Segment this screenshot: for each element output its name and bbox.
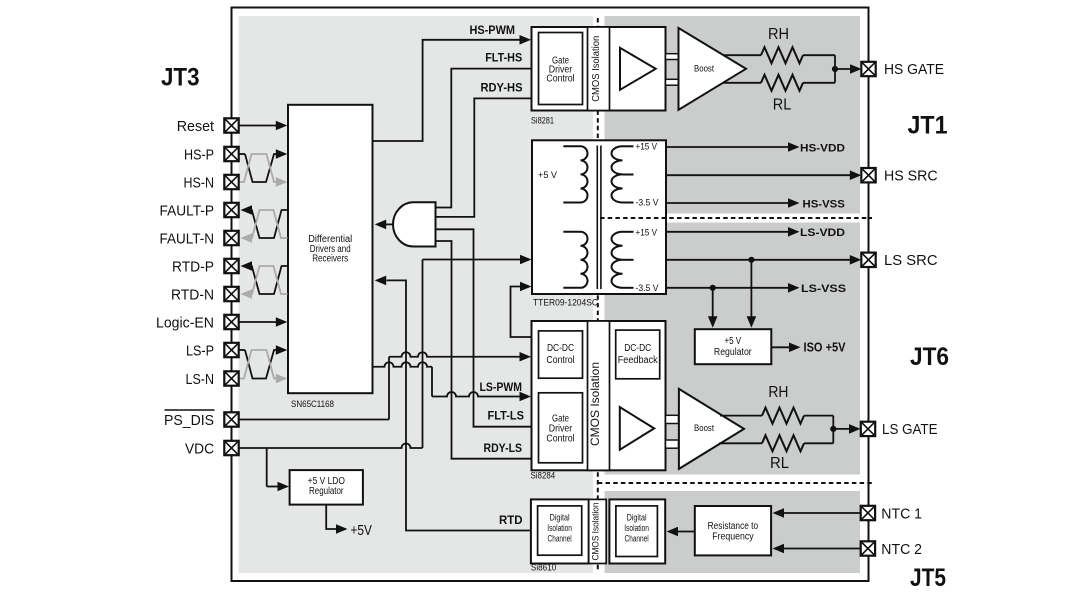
svg-text:DC-DC: DC-DC [547, 343, 574, 354]
wire LS-PWM [373, 362, 532, 401]
svg-text:Isolation: Isolation [624, 523, 649, 533]
svg-text:CMOS Isolation: CMOS Isolation [588, 362, 602, 446]
svg-text:JT6: JT6 [910, 343, 949, 371]
svg-text:CMOS Isolation: CMOS Isolation [590, 503, 600, 561]
transformer upper primary winding [563, 146, 587, 202]
svg-text:LS-N: LS-N [186, 371, 215, 388]
wire HS gate output junction [832, 55, 862, 83]
svg-text:LS-PWM: LS-PWM [480, 380, 523, 394]
svg-text:Regulator: Regulator [309, 486, 344, 497]
svg-text:TTER09-1204SC: TTER09-1204SC [533, 298, 598, 308]
terminal Logic-EN [156, 315, 239, 332]
terminal HS GATE [861, 62, 944, 78]
transformer TTER09-1204SC box [532, 140, 666, 294]
label -3.5 V upper secondary [636, 198, 659, 208]
svg-text:Control: Control [546, 355, 574, 366]
wire FLT-HS to AND gate [436, 51, 532, 208]
wire Logic-EN input [239, 317, 288, 327]
svg-text:SN65C1168: SN65C1168 [291, 399, 334, 409]
Si8610 CMOS isolation strip [589, 499, 607, 563]
wire ISO +5V output [771, 343, 800, 353]
digital isolator U4 Si8610 left box [531, 499, 589, 563]
wire RDY-HS to AND gate [436, 81, 532, 217]
resistor RH high-side [723, 26, 835, 63]
svg-text:Channel: Channel [548, 534, 572, 544]
svg-text:JT5: JT5 [910, 564, 946, 592]
wire NTC 2 input [773, 544, 862, 554]
svg-text:Channel: Channel [625, 534, 649, 544]
terminal LS GATE [861, 422, 938, 439]
wire HS-VSS rail [666, 198, 845, 210]
terminal FAULT-P [160, 203, 239, 220]
svg-text:FLT-LS: FLT-LS [488, 409, 525, 423]
wire RTD from isolator to transceiver [375, 276, 531, 531]
svg-text:RTD-N: RTD-N [171, 287, 214, 304]
svg-text:Boost: Boost [694, 64, 714, 74]
svg-text:+5V: +5V [351, 522, 372, 539]
svg-text:HS-PWM: HS-PWM [470, 23, 516, 37]
Si8284 output buffer triangle [620, 407, 654, 450]
logic-side light gray panel [239, 16, 594, 573]
Si8284 CMOS isolation strip [588, 321, 610, 470]
wire VDC to transformer [239, 255, 532, 448]
svg-text:VDC: VDC [185, 441, 214, 458]
terminal HS-P [184, 147, 239, 164]
svg-text:NTC 2: NTC 2 [881, 542, 922, 558]
svg-text:Frequency: Frequency [712, 532, 753, 543]
svg-text:Control: Control [546, 73, 574, 84]
AND gate fault combiner [393, 202, 436, 246]
svg-text:RDY-LS: RDY-LS [484, 441, 523, 455]
resistor RL low-side [719, 435, 833, 472]
wire RDY-LS to AND gate [436, 241, 532, 459]
transformer part label TTER09-1204SC [533, 298, 598, 308]
wire HS-VDD rail [666, 142, 845, 154]
svg-text:RTD-P: RTD-P [172, 259, 214, 276]
wire HS-PWM [373, 23, 532, 141]
terminal HS SRC [861, 168, 937, 185]
svg-text:HS-VSS: HS-VSS [803, 198, 846, 210]
twisted pair HS-P HS-N input [239, 149, 288, 187]
Si8281 output buffer triangle [620, 48, 656, 90]
terminal HS-N [184, 175, 239, 192]
svg-text:-3.5 V: -3.5 V [636, 283, 659, 293]
wire HS SRC rail [666, 170, 861, 180]
part label SN65C1168 [291, 399, 334, 409]
twisted pair FAULT-P FAULT-N output [241, 205, 288, 243]
svg-text:+15 V: +15 V [636, 227, 658, 237]
wire PS_DIS to DC-DC control [239, 352, 532, 420]
svg-text:ISO +5V: ISO +5V [804, 340, 846, 355]
twisted pair LS-P LS-N input [239, 345, 288, 383]
resistor RL high-side [723, 75, 836, 114]
terminal NTC 2 [861, 541, 922, 558]
svg-text:RH: RH [768, 384, 788, 401]
transformer core lines [597, 146, 601, 290]
+5 V LDO regulator box [290, 470, 363, 505]
outer frame [232, 8, 869, 582]
svg-text:LS-VSS: LS-VSS [801, 283, 847, 295]
differential drivers and receivers U1 SN65C1168 box [288, 105, 373, 393]
label -3.5 V lower secondary [636, 283, 659, 293]
svg-text:DC-DC: DC-DC [624, 343, 651, 354]
terminal NTC 1 [861, 506, 922, 523]
Si8281 CMOS isolation strip [588, 27, 610, 111]
svg-text:FAULT-N: FAULT-N [160, 231, 215, 248]
wire LS gate output junction [830, 416, 860, 444]
+5 V regulator box [695, 329, 772, 364]
Si8284 DC-DC feedback inner box [616, 330, 660, 379]
svg-text:CMOS Isolation: CMOS Isolation [590, 36, 602, 102]
svg-text:LS GATE: LS GATE [882, 422, 938, 438]
gate driver U2 Si8281 outer box [532, 27, 666, 111]
transformer lower secondary winding [612, 232, 634, 288]
wire LS-VDD rail [666, 227, 845, 239]
label ISO +5V [804, 340, 846, 355]
svg-text:NTC 1: NTC 1 [881, 506, 922, 522]
svg-text:FAULT-P: FAULT-P [160, 203, 215, 220]
svg-text:PS_DIS: PS_DIS [164, 412, 214, 429]
svg-text:JT1: JT1 [908, 112, 948, 140]
svg-text:Receivers: Receivers [312, 253, 348, 264]
isolated-side dark gray panel JT1 section [605, 16, 861, 214]
wire AND gate output to transceiver [375, 220, 394, 230]
connector stubs Si8281 to boost [666, 54, 679, 86]
svg-text:RL: RL [773, 97, 792, 114]
svg-text:+5 V: +5 V [538, 170, 557, 180]
wire NTC 1 input [773, 508, 862, 518]
terminal PS_DIS [164, 410, 239, 429]
wire R2F output to isolator [667, 527, 695, 537]
svg-text:Si8284: Si8284 [531, 471, 556, 481]
wire LDO +5V output [326, 505, 347, 534]
isolated-side dark gray panel JT6 section [605, 223, 861, 475]
Si8610 right digital isolation channel box [609, 499, 665, 563]
Si8610 left digital isolation channel inner box [538, 506, 582, 555]
wire VDC branch to LDO regulator [267, 448, 289, 491]
svg-text:Digital: Digital [627, 513, 647, 523]
label +15 V lower secondary [636, 227, 658, 237]
resistor RH low-side [720, 384, 833, 424]
terminal LS-N [186, 371, 239, 388]
part label Si8610 [531, 563, 556, 573]
wire FLT-LS to AND gate [436, 229, 532, 426]
transformer upper secondary winding [612, 146, 634, 202]
svg-text:+15 V: +15 V [636, 142, 658, 152]
resistance to frequency converter box [695, 506, 771, 555]
svg-text:LS-VDD: LS-VDD [800, 227, 845, 239]
twisted pair RTD-P RTD-N output [241, 261, 288, 299]
Si8281 gate driver control inner box [539, 33, 583, 105]
terminal LS SRC [861, 253, 937, 270]
gate driver U3 Si8284 outer box [532, 321, 666, 470]
terminal LS-P [186, 343, 239, 360]
svg-text:RTD: RTD [499, 513, 523, 527]
terminal VDC [185, 441, 239, 458]
Si8284 DC-DC control inner box [539, 331, 583, 378]
connector label JT3 [161, 64, 200, 92]
svg-text:Si8610: Si8610 [531, 563, 556, 573]
svg-text:HS SRC: HS SRC [884, 169, 938, 185]
svg-text:Isolation: Isolation [547, 523, 572, 533]
svg-text:LS-P: LS-P [186, 343, 214, 360]
svg-text:Si8281: Si8281 [531, 115, 554, 125]
svg-text:HS-N: HS-N [184, 175, 215, 192]
high-side boost amplifier triangle [679, 28, 747, 110]
label +5V [351, 522, 372, 539]
svg-text:Feedback: Feedback [618, 355, 659, 366]
label +5 V upper primary [538, 170, 557, 180]
svg-text:Control: Control [546, 433, 574, 444]
low-side boost amplifier triangle [679, 389, 744, 469]
terminal FAULT-N [160, 231, 239, 248]
svg-text:FLT-HS: FLT-HS [485, 51, 522, 65]
wire DC-DC control output to transformer [511, 282, 532, 337]
connector label JT5 [910, 564, 946, 592]
svg-text:-3.5 V: -3.5 V [636, 198, 659, 208]
svg-text:Reset: Reset [177, 118, 215, 135]
svg-text:Logic-EN: Logic-EN [156, 315, 214, 332]
terminal RTD-N [171, 287, 239, 304]
svg-text:Regulator: Regulator [714, 347, 752, 358]
isolation boundary vertical dashed line [597, 18, 599, 572]
svg-text:RH: RH [768, 26, 789, 43]
wire LS SRC rail with junction [666, 255, 861, 328]
terminal Reset [177, 118, 239, 135]
Si8284 gate driver control inner box [539, 393, 583, 463]
svg-text:LS SRC: LS SRC [884, 253, 938, 269]
svg-text:Boost: Boost [694, 423, 714, 433]
svg-text:+5 V: +5 V [724, 336, 741, 347]
svg-text:RDY-HS: RDY-HS [481, 81, 523, 95]
svg-text:RL: RL [770, 455, 789, 472]
part label Si8281 [531, 115, 554, 125]
JT6/JT5 boundary horizontal dashed line [598, 482, 872, 484]
connector stubs Si8284 to boost [666, 415, 679, 448]
svg-text:Digital: Digital [550, 513, 570, 523]
label +15 V upper secondary [636, 142, 658, 152]
part label Si8284 [531, 471, 556, 481]
svg-text:HS-VDD: HS-VDD [800, 142, 845, 154]
svg-text:Resistance to: Resistance to [708, 521, 759, 532]
svg-text:JT3: JT3 [161, 64, 200, 92]
svg-text:HS GATE: HS GATE [884, 62, 944, 78]
wire Reset input [239, 121, 288, 131]
transformer lower primary winding [563, 232, 587, 288]
connector label JT6 [910, 343, 949, 371]
JT1/JT6 boundary horizontal dashed line [600, 217, 872, 219]
svg-text:HS-P: HS-P [184, 147, 214, 164]
terminal RTD-P [172, 259, 239, 276]
wire LS-VSS rail with junction [666, 283, 847, 328]
isolated-side dark gray panel JT5 section [605, 491, 861, 573]
connector label JT1 [908, 112, 948, 140]
